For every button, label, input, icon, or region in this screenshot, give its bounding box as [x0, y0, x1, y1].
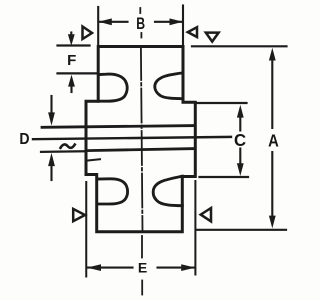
extension line B right	[182, 6, 184, 47]
svg-text:E: E	[138, 260, 147, 276]
surface mark triangle bottom-right	[201, 208, 211, 221]
dimension F arrow down	[70, 33, 72, 39]
dimension D arrow down	[50, 96, 52, 115]
part outline	[86, 47, 195, 232]
svg-text:B: B	[136, 15, 145, 33]
groove bottom-right	[153, 176, 182, 206]
surface mark triangle bottom-left	[73, 209, 85, 221]
dimension E arrow right	[181, 264, 195, 271]
tick line F upper	[58, 44, 90, 46]
dimension F arrow up	[68, 75, 75, 87]
surface mark triangle down	[206, 33, 219, 42]
svg-text:C: C	[234, 129, 247, 150]
dimension B arrow right	[170, 18, 183, 25]
bore line upper	[42, 126, 195, 128]
svg-text:D: D	[19, 130, 29, 148]
groove bottom-left	[97, 179, 128, 204]
tick line C lower	[200, 176, 249, 178]
svg-text:A: A	[268, 131, 279, 151]
approx tilde	[61, 144, 75, 147]
dimension B arrow left	[99, 18, 112, 25]
chamfer stub lower-left	[87, 159, 101, 160]
extension line A bottom	[196, 229, 286, 231]
dimension E line left	[88, 267, 133, 269]
dimension E arrow left	[87, 264, 101, 271]
svg-text:F: F	[67, 52, 76, 69]
dimension A arrow up	[269, 48, 276, 61]
dimension E line right	[158, 267, 195, 269]
surface mark triangle top-left	[83, 27, 93, 40]
tick line C upper	[196, 102, 247, 104]
dimension D arrow up	[48, 153, 55, 166]
tick line D lower	[41, 150, 84, 153]
surface mark triangle top-right	[188, 27, 197, 37]
centerline vertical main	[141, 46, 143, 232]
axis centerline horizontal	[33, 137, 231, 139]
dimension C arrow down	[239, 149, 241, 169]
dimension B line right	[155, 21, 182, 23]
tick line F lower	[58, 72, 98, 74]
extension line B left	[97, 7, 99, 46]
extension line E right	[194, 181, 196, 275]
bore line lower	[87, 149, 195, 151]
extension line A top	[192, 45, 287, 47]
groove top-left	[98, 74, 127, 101]
centerline vertical dash below part	[141, 236, 143, 258]
groove top-right	[155, 73, 183, 99]
centerline vertical top dash	[139, 8, 141, 13]
centerline vertical bottom dash	[141, 281, 143, 295]
centerline vertical dash below B	[140, 33, 142, 38]
dimension C arrow up	[237, 105, 244, 118]
dimension A arrow down	[271, 152, 273, 221]
dimension B line left	[100, 21, 128, 23]
extension line E left	[85, 182, 87, 277]
